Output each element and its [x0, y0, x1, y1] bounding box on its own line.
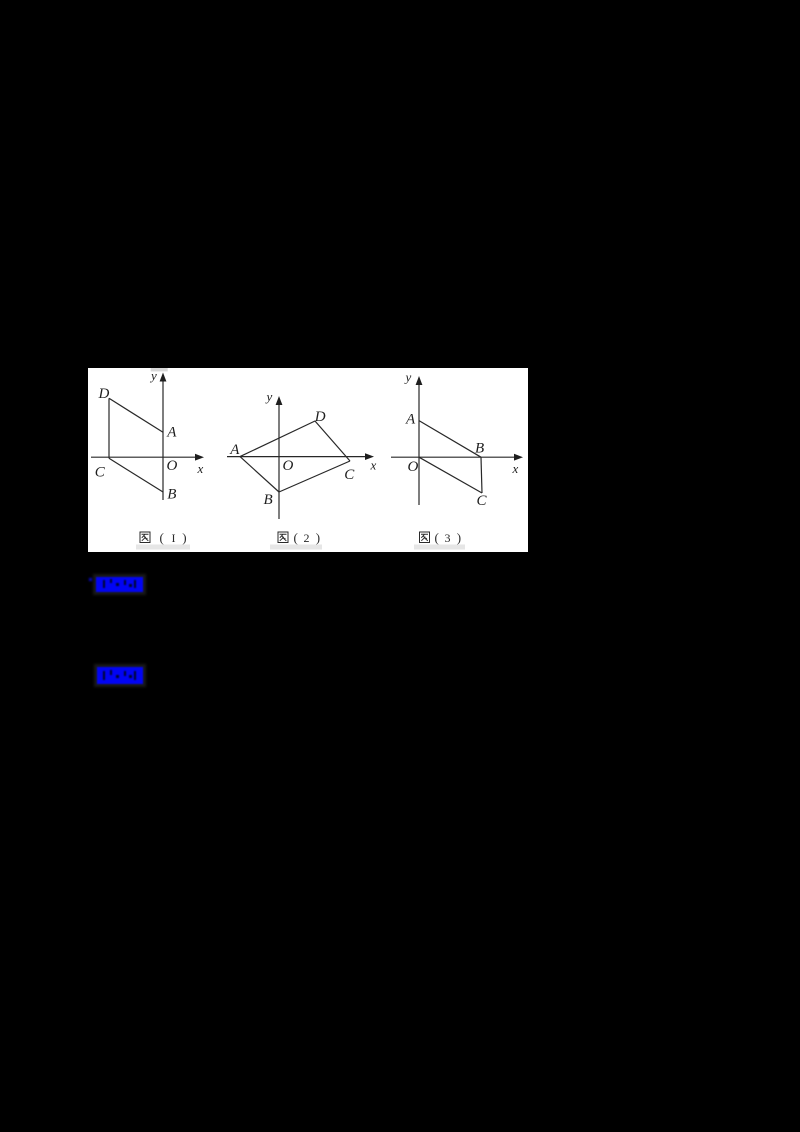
- fig3 y-axis: [418, 380, 420, 505]
- svg-text:x: x: [512, 461, 519, 476]
- fig1 x-axis arrowhead: [195, 454, 204, 461]
- svg-text:): ): [182, 530, 186, 545]
- fig3 y-axis arrowhead: [416, 376, 423, 385]
- fig3 side B-C: [481, 457, 482, 493]
- blue speck artifact: [89, 578, 92, 581]
- svg-text:D: D: [98, 386, 110, 402]
- svg-text:D: D: [314, 409, 326, 425]
- caption1 glyph 图: [140, 532, 150, 543]
- fig2 y-axis: [278, 399, 280, 519]
- svg-text:3: 3: [445, 531, 451, 545]
- svg-text:x: x: [370, 458, 377, 473]
- white figure panel: [88, 368, 528, 552]
- fig1 side C-B: [109, 458, 163, 492]
- fig2 side A-D: [240, 421, 315, 457]
- blue label 2 (【解答】): [97, 667, 143, 684]
- fig1 side D-A: [109, 398, 163, 432]
- fig2 side D-C: [315, 421, 350, 461]
- caption fig1: 图（I）: [140, 530, 187, 545]
- svg-text:(: (: [160, 530, 164, 545]
- artifact smudge under caption3: [414, 545, 465, 550]
- svg-text:O: O: [283, 458, 294, 474]
- svg-text:B: B: [167, 487, 176, 503]
- fig2 side C-B: [279, 461, 350, 492]
- caption fig2: 图（2）: [278, 530, 320, 545]
- svg-text:2: 2: [304, 531, 310, 545]
- svg-text:B: B: [475, 441, 484, 457]
- svg-text:y: y: [404, 369, 412, 384]
- fig2 y-axis arrowhead: [276, 396, 283, 405]
- blue label 1 (【解析】): [96, 577, 143, 592]
- artifact smudge under caption2: [270, 545, 322, 550]
- svg-text:O: O: [408, 459, 419, 475]
- svg-text:y: y: [265, 389, 273, 404]
- artifact smudge under caption1: [136, 545, 190, 550]
- svg-text:C: C: [95, 465, 106, 481]
- svg-text:A: A: [229, 442, 240, 458]
- fig3 x-axis arrowhead: [514, 454, 523, 461]
- svg-text:B: B: [264, 492, 273, 508]
- caption3 glyph 图: [420, 532, 430, 543]
- svg-text:A: A: [166, 424, 177, 440]
- svg-text:): ): [316, 530, 320, 545]
- fig1 y-axis: [162, 377, 164, 500]
- caption fig3: 图（3）: [420, 530, 462, 545]
- artifact patch above fig1 y label: [151, 368, 168, 371]
- svg-text:O: O: [167, 458, 178, 474]
- svg-text:C: C: [344, 467, 355, 483]
- fig1 y-axis arrowhead: [160, 373, 167, 382]
- fig3 side O-C: [419, 457, 482, 493]
- fig2 x-axis arrowhead: [365, 453, 374, 460]
- svg-text:(: (: [435, 530, 439, 545]
- fig3 x-axis: [391, 456, 516, 458]
- fig1 x-axis: [91, 456, 197, 458]
- fig2 x-axis: [227, 456, 367, 458]
- svg-text:C: C: [477, 493, 488, 509]
- fig3 side A-B: [419, 421, 481, 458]
- fig1 side D-C: [108, 398, 110, 458]
- caption2 glyph 图: [278, 532, 288, 543]
- svg-text:(: (: [294, 530, 298, 545]
- svg-text:A: A: [405, 412, 416, 428]
- svg-text:x: x: [197, 461, 204, 476]
- svg-text:I: I: [172, 531, 176, 545]
- fig2 side B-A: [240, 457, 279, 492]
- svg-text:): ): [457, 530, 461, 545]
